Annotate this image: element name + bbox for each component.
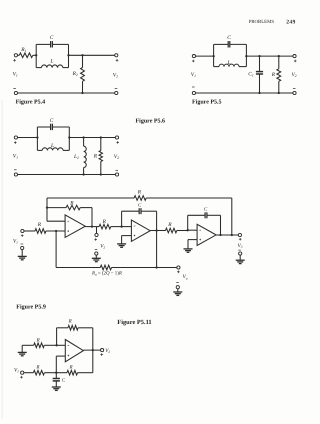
label R input P5.9 bbox=[37, 222, 42, 228]
terminal V3- P5.9 bbox=[239, 252, 242, 255]
node A input P5.9 bbox=[55, 230, 57, 232]
node R bottom P5.5 bbox=[278, 92, 280, 94]
node left of LC box P5.5 bbox=[212, 55, 214, 57]
node output junction P5.11 bbox=[92, 349, 94, 351]
svg-text:PROBLEMS: PROBLEMS bbox=[249, 19, 275, 25]
svg-text:R: R bbox=[68, 319, 72, 325]
minus sign input P5.4 bbox=[13, 88, 16, 90]
minus sign output P5.4 bbox=[115, 88, 118, 90]
resistor R minus P5.11 bbox=[34, 343, 45, 348]
wire feedback left vertical P5.11 bbox=[56, 328, 58, 346]
wire op2 output P5.9 bbox=[150, 230, 188, 232]
node op1 feedback tap P5.9 bbox=[91, 225, 93, 227]
label R minus P5.11 bbox=[36, 338, 40, 344]
node R2 bottom P5.4 bbox=[81, 92, 83, 94]
inductor L2 P5.6 bbox=[84, 146, 87, 167]
wire V1 to input resistor P5.9 bbox=[24, 230, 65, 232]
plus sign output P5.4 bbox=[116, 59, 119, 62]
node Rq op2 junction P5.9 bbox=[155, 266, 157, 268]
terminal V2- P5.5 bbox=[293, 91, 296, 94]
label C P5.6 bbox=[50, 118, 54, 124]
wire C1 top lead P5.5 bbox=[259, 56, 261, 72]
plus sign V2 P5.11 bbox=[100, 353, 103, 356]
plus sign V1 P5.9 bbox=[21, 234, 24, 237]
node left of LC box P5.6 bbox=[36, 136, 38, 138]
label L2 P5.6 bbox=[73, 154, 79, 160]
svg-text:R: R bbox=[37, 222, 42, 228]
label R op1 feedback P5.9 bbox=[69, 200, 74, 206]
svg-text:Figure P5.5: Figure P5.5 bbox=[192, 98, 222, 105]
capacitor C P5.5 bbox=[228, 41, 230, 47]
wire op2 C-box right vertical P5.9 bbox=[156, 211, 158, 230]
wire V2 ground stem P5.9 bbox=[95, 255, 97, 258]
node R top P5.5 bbox=[278, 55, 280, 57]
label V2 P5.4 bbox=[113, 73, 118, 79]
label V2 P5.11 bbox=[105, 348, 110, 354]
wire op3 output P5.9 bbox=[216, 234, 238, 236]
label R2 P5.4 bbox=[72, 71, 78, 77]
label Va P5.9 bbox=[183, 274, 188, 280]
bottom rail wire P5.4 bbox=[18, 92, 115, 94]
wire C ground stem P5.11 bbox=[55, 381, 57, 387]
label V3 P5.9 bbox=[238, 243, 243, 249]
wire V1 to R bottom P5.11 bbox=[24, 372, 57, 374]
wire op2 C-box left vertical P5.9 bbox=[121, 211, 123, 226]
node op2 output P5.9 bbox=[155, 229, 157, 231]
minus sign output P5.6 bbox=[115, 169, 118, 171]
minus sign input P5.6 bbox=[14, 169, 17, 171]
plus sign input P5.4 bbox=[13, 59, 16, 62]
wire op3 C-box right vertical P5.9 bbox=[220, 215, 222, 235]
svg-text:R: R bbox=[69, 200, 74, 206]
resistor R op1 feedback P5.9 bbox=[66, 205, 80, 210]
label R feedback P5.11 bbox=[68, 319, 72, 325]
wire op3 C-box top branch P5.9 bbox=[188, 214, 221, 216]
resistor R P5.5 bbox=[277, 69, 281, 82]
op-amp U1 P5.9 bbox=[65, 215, 85, 238]
plus sign V3 P5.9 bbox=[239, 238, 242, 241]
label R bottom-right P5.11 bbox=[69, 365, 73, 371]
svg-text:Figure P5.6: Figure P5.6 bbox=[136, 118, 166, 125]
terminal V2 P5.11 bbox=[101, 349, 104, 352]
LC box bottom branch wire P5.6 bbox=[37, 149, 69, 151]
label L P5.5 bbox=[227, 60, 231, 66]
LC box right vertical wire P5.4 bbox=[68, 44, 70, 67]
minus sign input P5.5 bbox=[192, 86, 195, 88]
terminal V1- P5.4 bbox=[14, 91, 17, 94]
minus sign Va P5.9 bbox=[176, 282, 179, 284]
label V1 P5.9 bbox=[13, 239, 18, 245]
wire R top lead P5.6 bbox=[100, 138, 102, 151]
caption Figure P5.9 bbox=[16, 303, 46, 310]
node minus junction P5.11 bbox=[55, 344, 57, 346]
label V1 P5.11 bbox=[14, 367, 19, 373]
wire V2 stub P5.9 bbox=[96, 227, 98, 234]
wire plus input P5.11 bbox=[56, 356, 65, 373]
op-amp U2 P5.9 bbox=[131, 220, 150, 241]
svg-text:Figure P5.11: Figure P5.11 bbox=[117, 319, 151, 326]
LC box top branch wire P5.4 bbox=[36, 43, 68, 45]
wire minus input P5.11 bbox=[57, 344, 66, 346]
label Rq value P5.9 bbox=[91, 271, 122, 277]
wire feedback top line P5.11 bbox=[57, 327, 93, 329]
node right of LC box P5.6 bbox=[68, 136, 70, 138]
inductor L P5.5 bbox=[219, 64, 239, 67]
wire bottom junction to R2 P5.11 bbox=[56, 372, 93, 374]
terminal V1+ P5.4 bbox=[14, 54, 17, 57]
ground V2 P5.9 bbox=[92, 258, 101, 261]
minus sign V2 P5.9 bbox=[95, 249, 98, 251]
svg-text:R: R bbox=[137, 189, 142, 195]
svg-text:Figure P5.4: Figure P5.4 bbox=[16, 98, 46, 105]
node op2 input junction P5.9 bbox=[120, 225, 122, 227]
wire op3 minus input P5.9 bbox=[188, 229, 197, 231]
ground Va P5.9 bbox=[173, 292, 182, 295]
resistor R1 P5.4 bbox=[19, 53, 33, 58]
capacitor C op3 P5.9 bbox=[205, 212, 207, 218]
wire R top lead P5.5 bbox=[278, 56, 280, 69]
svg-text:R: R bbox=[36, 338, 40, 344]
svg-text:C: C bbox=[50, 35, 54, 41]
svg-text:L: L bbox=[50, 58, 54, 64]
node R2 top P5.4 bbox=[81, 54, 83, 56]
wire V3 ground stem P5.9 bbox=[239, 255, 241, 260]
inductor L P5.6 bbox=[42, 148, 63, 151]
resistor R global feedback P5.9 bbox=[134, 196, 146, 201]
label C P5.5 bbox=[227, 35, 231, 41]
node L2 top P5.6 bbox=[82, 136, 84, 138]
LC box right vertical wire P5.5 bbox=[245, 44, 247, 66]
plus sign input P5.6 bbox=[14, 141, 17, 144]
resistor R feedback P5.11 bbox=[68, 325, 78, 330]
terminal V2- P5.6 bbox=[115, 173, 118, 176]
terminal Va+ P5.9 bbox=[177, 266, 180, 269]
label R global feedback P5.9 bbox=[137, 189, 142, 195]
terminal V3+ P5.9 bbox=[238, 233, 241, 236]
inductor L P5.4 bbox=[42, 65, 63, 68]
wire input to LC box P5.6 bbox=[18, 137, 38, 139]
plus sign output P5.6 bbox=[116, 141, 119, 144]
wire global feedback top rail P5.9 bbox=[47, 197, 232, 199]
wire L2 bottom lead P5.6 bbox=[83, 168, 85, 175]
resistor R bottom-right P5.11 bbox=[67, 370, 78, 375]
minus sign V1 P5.9 bbox=[21, 243, 24, 245]
capacitor C1 P5.5 bbox=[256, 72, 263, 74]
wire C1 bottom lead P5.5 bbox=[259, 74, 261, 93]
label C op2 P5.9 bbox=[138, 202, 142, 208]
node C1 top P5.5 bbox=[258, 55, 260, 57]
LC box left vertical wire P5.6 bbox=[36, 127, 38, 150]
wire op3 C-box left vertical P5.9 bbox=[187, 215, 189, 230]
LC box left vertical wire P5.5 bbox=[213, 44, 215, 66]
capacitor C P5.11 bbox=[53, 379, 60, 381]
LC box bottom branch wire P5.4 bbox=[36, 67, 68, 69]
wire global feedback right vertical P5.9 bbox=[231, 198, 233, 235]
label R op2-op3 P5.9 bbox=[167, 222, 172, 228]
label V1 P5.5 bbox=[191, 72, 196, 78]
node left of LC box P5.4 bbox=[35, 54, 37, 56]
ground V1 P5.9 bbox=[18, 256, 27, 259]
resistor R bottom-left P5.11 bbox=[33, 370, 44, 375]
wire input to LC box P5.5 bbox=[196, 55, 214, 57]
node right of LC box P5.5 bbox=[245, 55, 247, 57]
capacitor C P5.4 bbox=[51, 41, 53, 47]
label R P5.5 bbox=[271, 72, 276, 78]
label R bottom-left P5.11 bbox=[35, 364, 39, 370]
wire R bottom lead P5.5 bbox=[278, 81, 280, 93]
wire LC box to output P5.5 bbox=[246, 55, 293, 57]
svg-text:R: R bbox=[271, 72, 276, 78]
wire op2 output down to Rq line P5.9 bbox=[156, 231, 158, 268]
wire op1 output P5.9 bbox=[85, 226, 121, 228]
wire C top lead P5.11 bbox=[55, 373, 57, 379]
wire Va ground stem P5.9 bbox=[177, 289, 179, 292]
LC box bottom branch wire P5.5 bbox=[214, 66, 247, 68]
wire LC box to output P5.4 bbox=[69, 54, 115, 56]
label V1 P5.4 bbox=[13, 72, 18, 78]
node L2 bottom P5.6 bbox=[82, 173, 84, 175]
plus sign V2 P5.9 bbox=[94, 238, 97, 241]
node R bottom P5.6 bbox=[100, 173, 102, 175]
wire top rail P5.4 input to LC box bbox=[18, 54, 37, 56]
terminal V2+ P5.9 bbox=[95, 233, 98, 236]
capacitor C P5.6 bbox=[51, 124, 53, 130]
terminal V2- P5.4 bbox=[115, 91, 118, 94]
resistor R op1-op2 P5.9 bbox=[99, 224, 111, 229]
caption Figure P5.5 bbox=[192, 98, 222, 105]
wire LC box to output P5.6 bbox=[69, 137, 115, 139]
label L P5.6 bbox=[50, 143, 54, 149]
label R op1-op2 P5.9 bbox=[102, 219, 107, 225]
op-amp U1 P5.11 bbox=[65, 340, 83, 362]
label C P5.4 bbox=[50, 35, 54, 41]
capacitor C op2 P5.9 bbox=[139, 208, 141, 214]
LC box top branch wire P5.5 bbox=[214, 43, 247, 45]
LC box right vertical wire P5.6 bbox=[68, 127, 70, 150]
svg-text:R: R bbox=[93, 153, 98, 159]
node op3 input junction P5.9 bbox=[187, 229, 189, 231]
ground C P5.11 bbox=[52, 387, 61, 390]
plus sign Va P5.9 bbox=[177, 271, 180, 274]
LC box left vertical wire P5.4 bbox=[35, 44, 37, 67]
svg-text:R: R bbox=[102, 219, 107, 225]
caption Figure P5.6 bbox=[136, 118, 166, 125]
wire op2 C-box top branch P5.9 bbox=[122, 210, 157, 212]
page header text PROBLEMS 249 bbox=[249, 19, 296, 25]
ground op3 plus P5.9 bbox=[184, 249, 193, 252]
wire ground to R minus P5.11 bbox=[22, 345, 56, 352]
plus sign input P5.5 bbox=[192, 60, 195, 63]
minus sign output P5.5 bbox=[293, 88, 296, 90]
wire global feedback left vertical P5.9 bbox=[46, 198, 48, 221]
node bottom junction P5.11 bbox=[55, 372, 57, 374]
node C1 bottom P5.5 bbox=[258, 92, 260, 94]
terminal V2+ P5.4 bbox=[115, 54, 118, 57]
svg-text:C: C bbox=[50, 118, 54, 124]
terminal V1+ P5.6 bbox=[14, 136, 17, 139]
label C op3 P5.9 bbox=[204, 206, 208, 212]
wire R2 bottom lead P5.4 bbox=[82, 81, 84, 93]
terminal V2+ P5.6 bbox=[115, 136, 118, 139]
label V1 P5.6 bbox=[13, 154, 18, 160]
caption Figure P5.11 bbox=[117, 319, 151, 326]
wire V1 ground stem P5.9 bbox=[21, 250, 23, 257]
svg-text:C: C bbox=[227, 35, 231, 41]
label C1 P5.5 bbox=[248, 71, 254, 77]
terminal V2- P5.9 bbox=[95, 252, 98, 255]
ground V3 P5.9 bbox=[236, 260, 245, 263]
node op3 global feedback tap P5.9 bbox=[231, 234, 233, 236]
terminal Va- P5.9 bbox=[176, 286, 179, 289]
ground op2 plus P5.9 bbox=[117, 244, 126, 247]
svg-text:R: R bbox=[35, 364, 39, 370]
label R1 P5.4 bbox=[20, 47, 26, 53]
plus sign output P5.5 bbox=[294, 60, 297, 63]
terminal V1- P5.9 bbox=[21, 246, 24, 249]
node op3 C tap P5.9 bbox=[219, 234, 221, 236]
node feedback junction P5.9 bbox=[46, 206, 48, 208]
resistor R op2-op3 P5.9 bbox=[166, 228, 177, 233]
LC box top branch wire P5.6 bbox=[37, 126, 69, 128]
plus sign V1 P5.11 bbox=[20, 376, 23, 379]
op-amp U3 P5.9 bbox=[197, 224, 216, 245]
bottom rail wire P5.5 bbox=[196, 92, 293, 94]
resistor Rq P5.9 bbox=[100, 265, 111, 270]
wire feedback right vertical P5.11 bbox=[92, 328, 94, 373]
wire R2 top lead P5.4 bbox=[82, 55, 84, 67]
label V2 P5.6 bbox=[114, 154, 119, 160]
wire L2 top lead P5.6 bbox=[83, 138, 85, 147]
resistor R2 P5.4 bbox=[81, 68, 85, 82]
wire op output P5.11 bbox=[83, 349, 100, 351]
wire Rq bottom line P5.9 bbox=[56, 267, 177, 269]
resistor R input P5.9 bbox=[35, 229, 46, 234]
wire op1 local feedback line P5.9 bbox=[47, 208, 92, 227]
ground minus branch P5.11 bbox=[18, 352, 27, 355]
svg-text:L: L bbox=[227, 60, 231, 66]
wire op1 minus input P5.9 bbox=[47, 220, 65, 222]
minus sign V3 P5.9 bbox=[238, 249, 241, 251]
wire node A down to Rq line P5.9 bbox=[55, 231, 57, 268]
wire R bottom lead P5.6 bbox=[100, 162, 102, 175]
bottom rail wire P5.6 bbox=[18, 174, 116, 176]
svg-text:L: L bbox=[50, 143, 54, 149]
label R P5.6 bbox=[93, 153, 98, 159]
label L P5.4 bbox=[50, 58, 54, 64]
label V2 P5.5 bbox=[292, 72, 297, 78]
terminal V1 P5.11 bbox=[21, 371, 24, 374]
caption Figure P5.4 bbox=[16, 98, 46, 105]
terminal V1- P5.6 bbox=[14, 173, 17, 176]
terminal V1+ P5.9 bbox=[21, 229, 24, 232]
svg-text:Figure P5.9: Figure P5.9 bbox=[16, 303, 46, 310]
label C P5.11 bbox=[62, 377, 66, 383]
resistor R P5.6 bbox=[99, 151, 102, 162]
wire op2 plus to ground P5.9 bbox=[122, 236, 132, 244]
terminal V1+ P5.5 bbox=[192, 55, 195, 58]
node right of LC box P5.4 bbox=[67, 54, 69, 56]
svg-text:249: 249 bbox=[286, 19, 295, 25]
terminal V1- P5.5 bbox=[192, 91, 195, 94]
svg-text:R: R bbox=[167, 222, 172, 228]
node R top P5.6 bbox=[100, 136, 102, 138]
terminal V2+ P5.5 bbox=[293, 55, 296, 58]
label V2 P5.9 bbox=[100, 244, 105, 250]
wire op2 minus input P5.9 bbox=[122, 226, 132, 228]
wire op3 plus to ground P5.9 bbox=[188, 240, 197, 249]
svg-text:R: R bbox=[69, 365, 73, 371]
